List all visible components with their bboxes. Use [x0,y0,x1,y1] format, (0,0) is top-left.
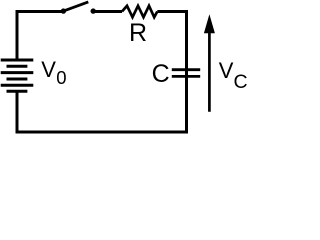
svg-text:V: V [41,57,56,82]
svg-text:C: C [234,71,248,93]
svg-text:0: 0 [56,67,66,88]
svg-text:C: C [152,60,170,88]
svg-text:R: R [129,19,147,47]
svg-text:V: V [219,58,234,83]
